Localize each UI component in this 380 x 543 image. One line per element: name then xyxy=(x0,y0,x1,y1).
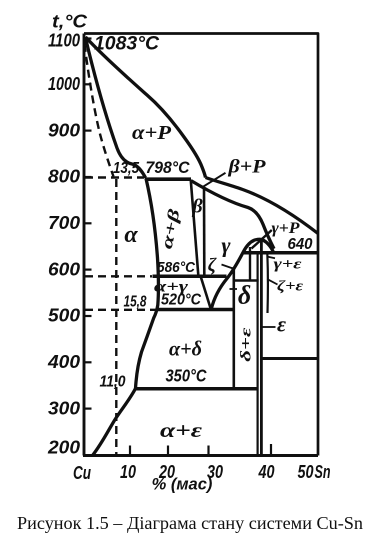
svg-text:640: 640 xyxy=(288,236,313,253)
svg-text:798°C: 798°C xyxy=(146,158,191,177)
svg-text:ε: ε xyxy=(277,312,286,337)
svg-text:β: β xyxy=(191,196,203,218)
svg-text:δ: δ xyxy=(238,281,251,310)
svg-text:α+γ: α+γ xyxy=(154,279,188,296)
svg-text:1000: 1000 xyxy=(48,74,80,94)
svg-text:200: 200 xyxy=(47,438,80,458)
svg-text:Sn: Sn xyxy=(315,462,331,482)
svg-text:% (мас): % (мас) xyxy=(152,476,213,494)
svg-text:600: 600 xyxy=(48,259,80,279)
svg-text:α+P: α+P xyxy=(132,122,172,144)
svg-text:Cu: Cu xyxy=(73,463,91,483)
svg-text:γ: γ xyxy=(221,233,231,258)
svg-text:500: 500 xyxy=(48,306,80,326)
svg-text:700: 700 xyxy=(48,213,80,233)
svg-text:ζ: ζ xyxy=(208,255,217,276)
svg-text:11,0: 11,0 xyxy=(100,374,126,391)
svg-text:300: 300 xyxy=(48,398,80,418)
svg-text:γ+ε: γ+ε xyxy=(274,257,303,273)
svg-text:800: 800 xyxy=(48,167,80,187)
svg-text:t,°C: t,°C xyxy=(52,12,88,32)
svg-text:40: 40 xyxy=(258,462,275,482)
svg-text:δ+ε: δ+ε xyxy=(239,326,255,361)
svg-text:α+ε: α+ε xyxy=(160,418,202,442)
svg-text:Рисунок 1.5 – Діаграма стану с: Рисунок 1.5 – Діаграма стану системи Cu-… xyxy=(17,513,363,533)
svg-text:350°C: 350°C xyxy=(166,366,207,386)
svg-text:α+δ: α+δ xyxy=(169,337,202,361)
svg-text:50: 50 xyxy=(298,462,314,482)
svg-text:900: 900 xyxy=(48,120,80,140)
svg-text:15,8: 15,8 xyxy=(124,293,147,310)
svg-text:400: 400 xyxy=(47,352,80,372)
svg-text:10: 10 xyxy=(120,462,136,482)
svg-text:γ+P: γ+P xyxy=(272,220,300,237)
svg-text:586°C: 586°C xyxy=(157,260,195,276)
svg-text:1083°C: 1083°C xyxy=(94,34,159,55)
svg-text:α: α xyxy=(124,222,138,248)
svg-text:1100: 1100 xyxy=(48,31,80,51)
svg-text:ζ+ε: ζ+ε xyxy=(277,279,304,295)
svg-text:β+P: β+P xyxy=(227,158,266,178)
svg-text:13,5: 13,5 xyxy=(113,160,140,177)
